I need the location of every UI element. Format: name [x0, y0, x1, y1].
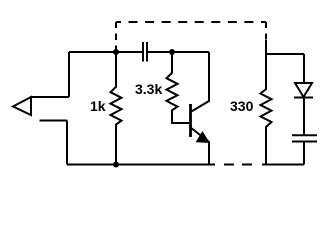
wire tip lead: [31, 96, 69, 98]
dashed feedback wire left vertical: [115, 22, 117, 52]
svg-text:330: 330: [230, 98, 254, 114]
dashed feedback wire right vertical: [265, 22, 267, 40]
dashed bottom wire segment 2: [242, 164, 252, 166]
resistor R1 1k: [111, 52, 122, 165]
dashed bottom wire segment 1: [224, 164, 234, 166]
capacitor C2 plates: [292, 135, 317, 141]
diode D1 cathode bar: [294, 97, 313, 99]
wire left top vertical: [68, 52, 70, 97]
wire right bottom rail: [262, 164, 304, 166]
wire diode top lead: [303, 54, 305, 83]
dashed feedback wire horizontal: [116, 21, 266, 23]
capacitor C1 plates: [143, 42, 147, 62]
resistor R3 330: [261, 54, 272, 165]
junction node bottom: [113, 162, 119, 168]
resistor R2 3.3k: [167, 52, 190, 123]
wire right top rail: [266, 53, 304, 55]
wire capacitor bottom lead: [303, 142, 305, 165]
wire bottom rail: [67, 164, 215, 166]
wire sleeve lead: [40, 120, 68, 122]
wire top rail right: [147, 51, 209, 53]
wire top rail left: [69, 51, 143, 53]
junction node top-left: [113, 49, 119, 55]
transistor Q1 emitter arrow: [197, 132, 210, 142]
transistor Q1 collector: [191, 52, 210, 112]
wire left bottom vertical: [66, 121, 68, 165]
junction node top-mid: [169, 49, 175, 55]
wire right branch top lead: [265, 40, 267, 54]
transistor Q1 base bar: [189, 104, 192, 137]
transistor Q1 emitter: [191, 128, 210, 165]
audio plug tip triangle: [13, 97, 31, 115]
wire diode to capacitor: [303, 98, 305, 135]
svg-text:1k: 1k: [90, 98, 106, 114]
diode D1 triangle: [295, 83, 312, 97]
svg-text:3.3k: 3.3k: [135, 81, 162, 97]
